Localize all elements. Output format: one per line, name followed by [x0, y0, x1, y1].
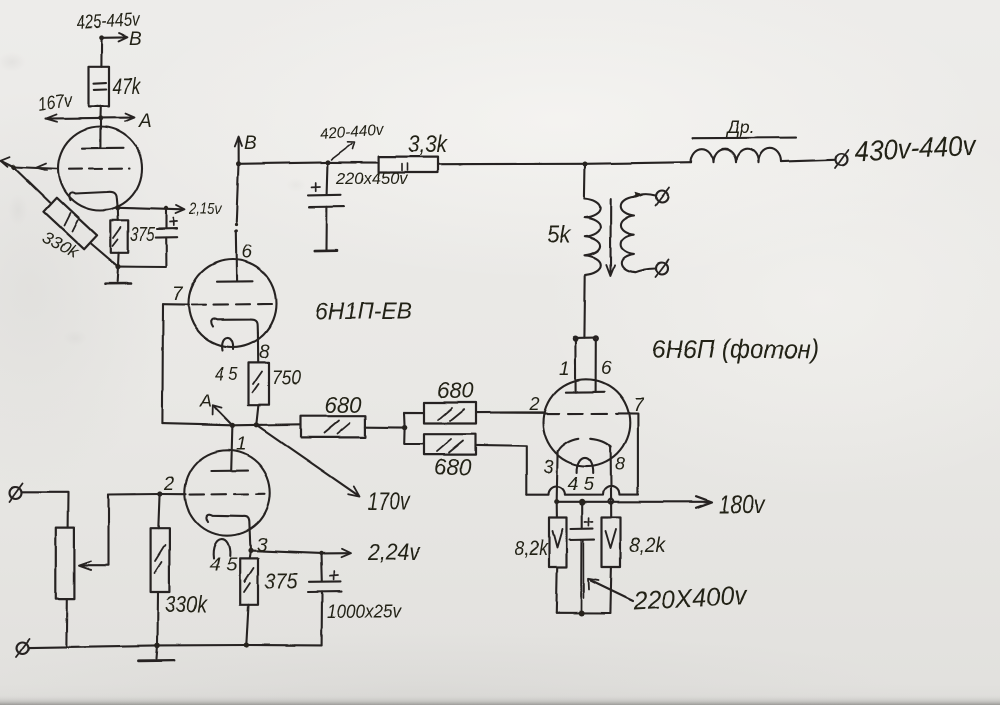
terminal secondary bottom [656, 263, 668, 275]
junction dot pin1 node [230, 423, 235, 428]
svg-text:A: A [138, 111, 152, 132]
svg-text:6Н6П (фотон): 6Н6П (фотон) [652, 334, 819, 364]
tube V1 plate [82, 147, 123, 149]
capacitor C1 top lead [165, 208, 167, 228]
arrow 220x400v pointer [591, 581, 634, 602]
svg-text:8,2k: 8,2k [630, 534, 667, 557]
resistor 330k bottom lead [156, 592, 159, 645]
wire node B down to pin 6 [236, 164, 238, 222]
ground V1 [116, 267, 119, 281]
tube V4 grid (dashed) [190, 493, 265, 496]
open dot pin8 [609, 499, 614, 504]
node B top: junction dot [99, 35, 104, 40]
pen marks on wire [234, 223, 237, 226]
resistor 375 inner marks [244, 568, 254, 592]
resistor 375 inner marks [113, 228, 121, 247]
cathode pin 3 wire [556, 452, 559, 501]
capacitor C1 bottom lead [118, 237, 167, 267]
resistor 680 bottom inner marks [437, 440, 463, 453]
wire to bottom 680 [404, 428, 424, 444]
cathode bus to 180v [557, 501, 708, 503]
resistor 680 top inner marks [438, 408, 464, 421]
resistor 750 body [249, 362, 270, 405]
resistor 330k inner marks [155, 545, 166, 573]
wire grid down the left [161, 304, 164, 423]
bottom tie bus [556, 612, 610, 614]
junction dot 375 node [244, 642, 249, 647]
resistor 8,2k right bottom lead [610, 567, 611, 613]
svg-text:2,15v: 2,15v [188, 199, 222, 218]
wire primary bottom to anodes [583, 275, 586, 338]
wire to top 680 [404, 412, 424, 427]
resistor 375 bottom lead [246, 605, 248, 645]
junction dot 750 node [254, 422, 259, 427]
SECTION: bottom-left V4 [9, 425, 351, 660]
choke core bar [693, 137, 797, 140]
wire secondary top lead [634, 194, 656, 197]
tube V2 grid (dashed) [192, 303, 273, 306]
resistor 375 (V1 cathode) body [111, 220, 128, 253]
ground symbol [157, 645, 158, 658]
tube V2 envelope [189, 260, 277, 348]
tube V1 grid (dashed) [69, 168, 130, 171]
wire top 680 to pin 2 [476, 411, 544, 413]
svg-text:6Н1П-ЕВ: 6Н1П-ЕВ [315, 298, 412, 325]
svg-text:4 5: 4 5 [215, 364, 239, 384]
svg-text:6: 6 [601, 358, 612, 379]
svg-text:4 5: 4 5 [568, 474, 595, 494]
tube V1 envelope [58, 127, 142, 211]
resistor 8,2k right lead [610, 502, 612, 517]
svg-text:680: 680 [325, 392, 362, 418]
transformer core [609, 200, 611, 273]
wire [100, 38, 102, 67]
wire cathode to 2,15v arrow [118, 208, 183, 210]
resistor 330k inner marks [64, 213, 78, 231]
capacitor 220x400v bottom lead (double stroke) [581, 540, 583, 613]
wire diagonal to 330k [14, 167, 51, 202]
resistor 375 lead [249, 550, 250, 558]
resistor 375 leads [117, 208, 120, 267]
capacitor 1000x25v plus [330, 571, 339, 579]
junction dot cap top [579, 499, 585, 505]
tube V2 grid lead pin 7 [163, 303, 189, 305]
junction dot ground node [155, 643, 161, 649]
capacitor 220x450v top lead [326, 162, 329, 194]
svg-text:220x450v: 220x450v [335, 170, 409, 188]
capacitor 1000x25v plates [309, 580, 341, 582]
capacitor 1000x25v top lead [320, 553, 323, 581]
svg-text:680: 680 [434, 454, 471, 480]
wire transformer primary top lead [583, 164, 586, 199]
tube V2 heater [222, 338, 233, 351]
tube V4 plate [211, 470, 248, 472]
capacitor 1000x25v bottom lead [321, 592, 323, 646]
input terminal top [10, 487, 22, 499]
transformer primary winding 5k [584, 199, 600, 275]
transformer secondary winding [621, 197, 635, 272]
junction dot transformer node [583, 162, 588, 167]
svg-text:A: A [199, 391, 212, 411]
wire bus to choke [585, 162, 691, 164]
svg-text:2,24v: 2,24v [367, 539, 421, 565]
arrow A [214, 407, 232, 426]
junction dot filter cap node [325, 160, 330, 165]
svg-text:680: 680 [438, 377, 474, 403]
junction dot cap tee bottom [319, 551, 323, 555]
resistor 8,2k left lead [556, 502, 558, 517]
tube V4 heater [213, 539, 230, 558]
resistor 330k lead [158, 493, 159, 528]
svg-text:8,2k: 8,2k [515, 537, 549, 560]
wire diagonal from 330k to cathode junction [91, 244, 118, 267]
wire bus to 3.3k [328, 161, 379, 163]
resistor 680 top body [424, 403, 476, 424]
resistor 8,2k left V mark [553, 529, 563, 548]
svg-text:3,3k: 3,3k [408, 131, 449, 158]
wire 680 to parallel pair [365, 426, 404, 428]
resistor 375 body [240, 558, 258, 604]
wire bus 3.3k to transformer node [438, 163, 585, 165]
svg-text:375: 375 [265, 568, 298, 594]
wire [99, 106, 101, 117]
terminal 430-440v [836, 154, 848, 166]
svg-text:6: 6 [242, 242, 253, 263]
junction dot pin3 [554, 499, 559, 504]
svg-text:3: 3 [257, 535, 268, 556]
resistor 3,3k body [379, 157, 438, 173]
tube V3 grid pin 2 lead [500, 412, 544, 414]
svg-text:5k: 5k [547, 221, 572, 249]
wire cathode pin 8 to resistor 750 [257, 333, 259, 362]
junction dot cathode node 3 [248, 548, 253, 553]
svg-text:8: 8 [259, 342, 270, 363]
junction dot grid node [11, 165, 16, 170]
tube V1 grid lead wire [13, 167, 58, 169]
svg-text:2: 2 [163, 474, 175, 495]
tube V3 cathode left [559, 439, 579, 451]
resistor 330k body [151, 528, 170, 592]
tube V3 grid (dashed) [544, 412, 630, 414]
resistor 8,2k left body [549, 517, 567, 567]
SECTION: output tube V3 [500, 338, 712, 616]
resistor 680 series body [301, 416, 365, 437]
svg-text:430v-440v: 430v-440v [854, 130, 978, 167]
wire 750 bottom lead [256, 405, 258, 424]
resistor 680 bottom body [424, 434, 476, 454]
svg-text:1000x25v: 1000x25v [327, 602, 402, 623]
junction dot cathode node [115, 205, 120, 210]
tube V2 plate [217, 280, 253, 283]
svg-text:170v: 170v [368, 488, 412, 515]
wire wiper riser to grid node [109, 493, 187, 496]
capacitor 220x450v plus [312, 183, 321, 191]
tube V2 cathode [211, 319, 258, 333]
bottom ground bus [30, 645, 322, 648]
svg-text:7: 7 [633, 395, 645, 416]
wire choke to output terminal [781, 160, 835, 162]
wire pin 1 lead [231, 425, 232, 470]
svg-text:7: 7 [173, 284, 185, 305]
svg-text:В: В [244, 133, 257, 154]
resistor 8,2k left bottom lead [555, 567, 558, 613]
wire A double-arrow [46, 118, 133, 119]
potentiometer wiper wire [81, 495, 109, 566]
node A: junction dot [98, 116, 103, 121]
resistor 47k inner marks [94, 83, 107, 90]
grid return wire with hops [527, 486, 638, 494]
capacitor C1 plates [157, 228, 177, 230]
tube V4 cathode [206, 515, 250, 548]
resistor 750 inner marks [253, 371, 263, 393]
svg-text:750: 750 [272, 367, 301, 389]
tube V3 plate [566, 391, 604, 394]
capacitor 220x400v plates [571, 528, 593, 531]
resistor 330k body (diagonal) [44, 198, 97, 249]
wire plate lead V1 [99, 118, 101, 148]
svg-text:3: 3 [544, 457, 554, 477]
SECTION: top-left input stage [1, 34, 185, 284]
svg-text:180v: 180v [719, 489, 766, 519]
tube V3 cathode right [591, 439, 610, 447]
small arrow from 420-440v label [331, 142, 355, 160]
junction dot bottom [115, 264, 120, 269]
wire main B+ bus [239, 162, 328, 163]
svg-text:375: 375 [131, 224, 156, 246]
capacitor 220x450v plates [308, 194, 341, 197]
anode pin wires 1 and 6 [574, 339, 576, 393]
wire input to pot top [22, 492, 69, 528]
svg-text:220X400v: 220X400v [632, 580, 749, 616]
SECTION: B+ bus / filter [235, 137, 849, 251]
resistor 8,2k right body [602, 517, 621, 567]
capacitor 220x400v plus [585, 518, 593, 526]
svg-text:2: 2 [529, 394, 540, 414]
tube V3 grid pin 7 lead [630, 413, 638, 494]
ground filter cap [315, 249, 337, 252]
resistor 680 series inner marks [324, 421, 350, 435]
junction dot node B [236, 161, 241, 166]
resistor 47k body [89, 67, 110, 107]
junction dot cap tee [164, 206, 168, 210]
cathode pin 8 wire [610, 447, 613, 501]
anode tie bar [575, 337, 595, 339]
capacitor C1 plus sign [170, 218, 178, 226]
choke Dr. winding [691, 148, 781, 162]
wire bottom 680 around to pin 7 [476, 445, 527, 494]
potentiometer body [56, 528, 75, 599]
junction dot bottom [578, 610, 584, 616]
wire junction row y=424 [162, 424, 301, 426]
tube V3 envelope [543, 379, 630, 466]
tube V3 heater [577, 457, 594, 473]
junction dot parallel pair [402, 425, 407, 430]
arrow to input (off left edge) [1, 161, 13, 167]
wire secondary bottom lead [635, 269, 655, 273]
junction dot grid node 2 [157, 491, 162, 496]
SECTION: transformer [573, 164, 669, 341]
node B arrow up [238, 138, 240, 164]
arrow diagonal to 170v [256, 425, 357, 495]
wire arrow to B (top) [102, 36, 126, 38]
svg-text:330k: 330k [165, 591, 208, 617]
potentiometer bottom lead [65, 599, 68, 646]
SECTION: middle triode V2 [162, 164, 543, 497]
tube V4 envelope [185, 450, 270, 535]
svg-text:47k: 47k [113, 73, 142, 99]
svg-text:4 5: 4 5 [210, 555, 239, 575]
capacitor 220x450v bottom lead [325, 207, 327, 249]
potentiometer wiper arrowhead [79, 561, 91, 570]
wire pin 6 lead [235, 231, 238, 281]
anode pin terminals [573, 337, 577, 341]
terminal bottom [17, 642, 29, 654]
capacitor 220x400v top lead [581, 502, 583, 529]
resistor 8,2k right V mark [606, 529, 617, 548]
terminal secondary top [656, 191, 668, 203]
svg-text:В: В [129, 29, 142, 50]
svg-text:8: 8 [615, 454, 625, 474]
svg-text:1: 1 [559, 359, 570, 380]
svg-text:1: 1 [236, 434, 247, 455]
wire cathode to 2,24v arrow [251, 551, 349, 554]
tube V1 cathode [69, 192, 118, 206]
resistor 3,3k inner marks [402, 164, 408, 171]
svg-text:Др.: Др. [725, 117, 755, 137]
